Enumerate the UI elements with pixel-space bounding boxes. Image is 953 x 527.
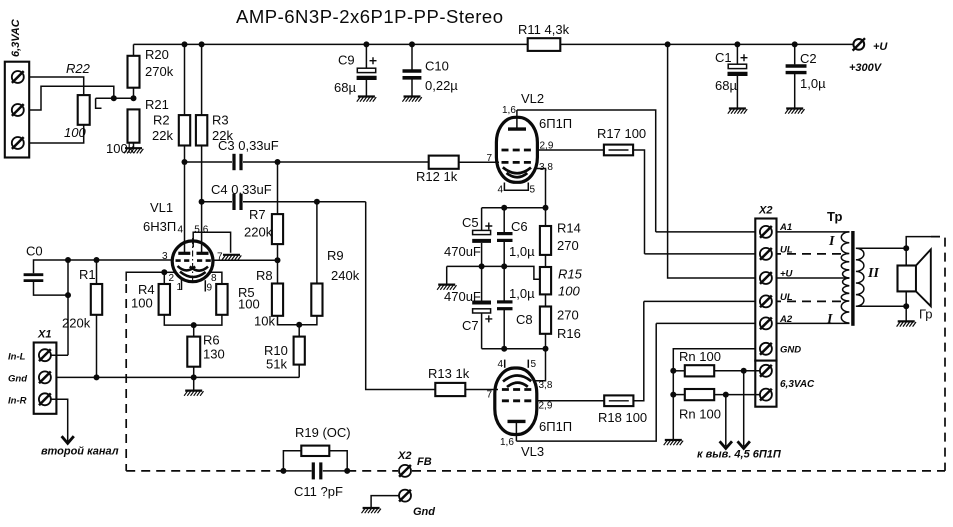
svg-text:C10: C10 [425, 59, 449, 74]
svg-text:I: I [828, 234, 835, 249]
svg-text:R12 1k: R12 1k [416, 169, 458, 184]
svg-text:7: 7 [487, 153, 493, 164]
svg-text:C0: C0 [26, 244, 43, 259]
svg-text:6П1П: 6П1П [539, 419, 572, 434]
node rail C1 [734, 41, 740, 47]
svg-text:1,0µ: 1,0µ [800, 76, 826, 91]
ground of cathode bank [437, 285, 456, 290]
wire ground bus X1 to R10 [51, 376, 299, 378]
wire screw2 to R20/R21 junction [29, 86, 114, 110]
screw X2 UL1 [760, 248, 772, 260]
resistor R8 [254, 260, 299, 328]
resistor R5 [194, 284, 260, 325]
wire feedback from cathode node [126, 272, 164, 281]
svg-text:7: 7 [217, 252, 223, 263]
node Rn lower left [670, 392, 676, 398]
svg-text:R9: R9 [327, 248, 344, 263]
wire GND row [673, 349, 760, 440]
wire cathode node line VL3 [482, 348, 546, 350]
VL3 heater pin 4 stub [504, 360, 506, 368]
wire feedback dashed horizontal to R19 [126, 470, 283, 472]
screw X2 A1 [760, 226, 772, 238]
svg-text:4: 4 [498, 185, 504, 196]
svg-text:C8: C8 [516, 312, 533, 327]
wire A2 row [656, 322, 849, 324]
node C5 middle [479, 263, 485, 269]
resistor R6 [187, 325, 224, 390]
svg-text:C9: C9 [338, 53, 355, 68]
node Rn upper left [670, 368, 676, 374]
svg-text:10k: 10k [254, 314, 275, 329]
resistor R13 [428, 366, 498, 396]
svg-text:GND: GND [780, 345, 801, 356]
svg-text:II: II [867, 266, 879, 281]
svg-text:68µ: 68µ [715, 78, 737, 93]
transformer Tp core [827, 209, 855, 326]
svg-text:5: 5 [194, 225, 200, 236]
svg-text:470uF: 470uF [444, 244, 481, 259]
svg-text:Rn 100: Rn 100 [679, 407, 721, 422]
terminal X2 FB [397, 450, 432, 477]
svg-text:VL3: VL3 [521, 444, 544, 459]
svg-text:1,6: 1,6 [502, 105, 516, 116]
heater feed arrow right [738, 371, 750, 449]
svg-text:0,22µ: 0,22µ [425, 78, 458, 93]
svg-text:R7: R7 [249, 207, 266, 222]
svg-text:270: 270 [557, 238, 579, 253]
wire In-R to second channel arrow [41, 399, 119, 457]
wire grid line to VL1 pin 3 [68, 259, 173, 261]
wire VL1 left cathode to R4 [164, 271, 177, 273]
svg-text:5: 5 [530, 185, 536, 196]
resistor R20 [128, 44, 174, 98]
svg-text:R8: R8 [256, 268, 273, 283]
ground under R6 [184, 391, 203, 396]
node C6 top [501, 205, 507, 211]
screw terminal 6,3VAC-2 [12, 104, 24, 116]
resistor R18 [598, 395, 647, 425]
svg-text:220k: 220k [62, 316, 91, 331]
node C6 middle [501, 263, 507, 269]
ground under C9 [357, 97, 376, 102]
node R22 wiper junction [111, 95, 117, 101]
resistor R9 [299, 202, 359, 325]
wire top rail right of R11 [560, 43, 853, 45]
svg-text:3: 3 [162, 251, 168, 262]
ground under C10 [402, 97, 421, 102]
node C3/R2 [182, 159, 188, 165]
resistor R10 [264, 325, 305, 378]
svg-text:4: 4 [178, 225, 184, 236]
screw X1 In-L [39, 349, 51, 361]
svg-text:51k: 51k [266, 357, 287, 372]
wire UL2 row [644, 300, 760, 302]
node rail C2 [792, 41, 798, 47]
wire A1 row [656, 231, 850, 233]
svg-text:In-L: In-L [8, 352, 26, 363]
node C3/R7 [275, 159, 281, 165]
svg-text:2: 2 [169, 273, 175, 284]
node C8 bottom [501, 346, 507, 352]
wire feedback dashed corner [931, 237, 945, 471]
capacitor C6 [497, 208, 535, 267]
resistor R7 [244, 162, 283, 260]
node rail R3 [199, 41, 205, 47]
resistor R19 (OC) [283, 425, 350, 471]
wire R18 to UL2 riser [633, 301, 643, 400]
terminal strip X2 lower box [755, 361, 815, 407]
node rail R2 [182, 41, 188, 47]
node R1 bottom [94, 374, 100, 380]
wire VL2 cathode 3,8 [535, 169, 546, 208]
svg-text:6: 6 [203, 225, 209, 236]
wire dashed to FB terminal [347, 470, 398, 472]
screw X2 +U [760, 272, 772, 284]
resistor Rn lower [673, 389, 760, 422]
node R19 right [344, 468, 350, 474]
svg-text:240k: 240k [331, 268, 360, 283]
svg-text:4: 4 [498, 359, 504, 370]
svg-text:100: 100 [558, 284, 580, 299]
resistor R14 [540, 208, 581, 267]
wire VL3 cathode 3,8 [535, 349, 546, 381]
node R4/R5/R6 [191, 322, 197, 328]
node rail C9 [363, 41, 369, 47]
wire In-L riser [67, 260, 69, 355]
svg-text:100: 100 [64, 125, 86, 140]
resistor R16 [540, 307, 581, 349]
svg-text:I: I [826, 312, 833, 327]
VL3 heater pin 5 stub [527, 360, 529, 368]
svg-text:R21: R21 [145, 97, 169, 112]
node C4/R9 [314, 199, 320, 205]
node C0 top [65, 257, 71, 263]
capacitor C11 [283, 462, 347, 499]
svg-text:+U: +U [780, 269, 794, 280]
svg-text:UL: UL [780, 245, 793, 256]
node speaker top [903, 245, 909, 251]
wire screw1 to R22 top [29, 77, 83, 95]
capacitor C7 [444, 266, 492, 348]
svg-text:C1: C1 [715, 50, 732, 65]
svg-text:C4 0,33uF: C4 0,33uF [211, 182, 272, 197]
wire secondary top to speaker [856, 247, 906, 249]
wire middle ground line [447, 266, 540, 279]
svg-text:R3: R3 [212, 113, 229, 128]
screw X2 GND [760, 343, 772, 355]
svg-text:FB: FB [417, 456, 432, 468]
svg-text:R6: R6 [203, 333, 220, 348]
svg-text:270k: 270k [145, 64, 174, 79]
svg-text:In-R: In-R [8, 396, 27, 407]
svg-text:A1: A1 [779, 222, 792, 233]
wire +U drop and row [668, 44, 850, 278]
svg-text:5: 5 [531, 359, 537, 370]
triode VL1 [143, 200, 223, 294]
svg-text:1,6: 1,6 [500, 437, 514, 448]
node R14 top [543, 205, 549, 211]
svg-text:6,3VAC: 6,3VAC [10, 18, 22, 57]
svg-text:100: 100 [131, 296, 153, 311]
svg-text:1,0µ: 1,0µ [509, 286, 535, 301]
svg-text:3,8: 3,8 [539, 380, 553, 391]
svg-text:100: 100 [238, 297, 260, 312]
wire UL1 dashed to transformer [772, 253, 846, 255]
svg-text:второй канал: второй канал [41, 446, 119, 458]
svg-text:1,0µ: 1,0µ [509, 244, 535, 259]
wire screw3 to R22 bottom [29, 125, 83, 143]
resistor R3 [196, 44, 234, 253]
wire dashed FB to right border [412, 470, 945, 472]
svg-text:470uF: 470uF [444, 289, 481, 304]
svg-text:к выв. 4,5 6П1П: к выв. 4,5 6П1П [697, 449, 782, 461]
node C0 bottom [65, 292, 71, 298]
wire secondary bottom to speaker [856, 305, 906, 307]
resistor Rn upper [673, 349, 760, 376]
svg-text:130: 130 [203, 347, 225, 362]
resistor R2 [152, 44, 190, 253]
svg-text:R1: R1 [79, 267, 96, 282]
node R8/R9/R10 [296, 322, 302, 328]
node R7/R8 [275, 257, 281, 263]
capacitor C5 [444, 208, 492, 267]
svg-text:Gnd: Gnd [413, 506, 435, 518]
svg-text:1: 1 [177, 282, 183, 293]
node rail C10 [409, 41, 415, 47]
terminal X2 Gnd [399, 490, 435, 518]
node R6/Gnd wire [191, 374, 197, 380]
screw terminal 6,3VAC-1 [12, 71, 24, 83]
pentode VL3 [487, 359, 573, 459]
svg-text:R14: R14 [557, 221, 581, 236]
svg-text:X1: X1 [37, 329, 51, 341]
resistor R1 [62, 260, 102, 377]
svg-text:UL: UL [780, 292, 793, 303]
wire R17 to UL1 riser [633, 150, 644, 254]
capacitor C1 [715, 44, 748, 107]
svg-text:6П1П: 6П1П [539, 116, 572, 131]
svg-text:C11 ?pF: C11 ?pF [294, 484, 343, 499]
svg-text:R19 (ОС): R19 (ОС) [295, 425, 351, 440]
svg-text:R20: R20 [145, 47, 169, 62]
ground under R21 [124, 148, 143, 153]
terminal +U +300V [849, 38, 888, 74]
screw X2 UL2 [760, 295, 772, 307]
ground under C1 [728, 109, 747, 114]
svg-text:6,3VAC: 6,3VAC [780, 379, 815, 390]
trimmer R15 [540, 267, 583, 307]
capacitor C8 [497, 266, 535, 348]
svg-text:R11 4,3k: R11 4,3k [518, 22, 570, 37]
svg-text:X2: X2 [758, 205, 772, 217]
speaker Гр [898, 248, 933, 321]
screw X2 6,3VAC-a [760, 365, 772, 377]
resistor R21 [106, 97, 169, 156]
ground of GND riser [664, 440, 683, 445]
ground under C2 [785, 109, 804, 114]
wire UL1 row [645, 253, 761, 255]
node Rn upper right [741, 368, 747, 374]
svg-text:C3 0,33uF: C3 0,33uF [218, 138, 279, 153]
heater feed arrow left [697, 395, 782, 461]
wire feedback dashed vertical [125, 284, 127, 471]
svg-text:6Н3П: 6Н3П [143, 219, 176, 234]
VL2 heater pins 4,5 bridge [504, 183, 528, 191]
svg-text:68µ: 68µ [334, 80, 356, 95]
svg-text:R15: R15 [558, 267, 583, 282]
capacitor C0 [24, 244, 68, 296]
svg-text:220k: 220k [244, 225, 273, 240]
terminal block X1 [8, 329, 56, 414]
node R16 bottom [543, 346, 549, 352]
svg-text:C6: C6 [511, 219, 528, 234]
svg-text:R22: R22 [66, 61, 91, 76]
svg-text:Gnd: Gnd [8, 374, 27, 385]
svg-text:+U: +U [873, 41, 888, 53]
svg-text:C5: C5 [462, 215, 479, 230]
node R20/R21 junction [131, 95, 137, 101]
svg-text:Гр: Гр [919, 307, 933, 322]
wire VL3 screen to R18 [537, 400, 604, 402]
pentode VL2 [487, 91, 573, 196]
resistor R4 [131, 272, 194, 325]
svg-text:7: 7 [487, 390, 493, 401]
wire feedback tap [906, 237, 931, 249]
svg-text:C7: C7 [462, 318, 479, 333]
ground of X2 Gnd [362, 508, 381, 513]
node R19 left [280, 468, 286, 474]
svg-text:X2: X2 [397, 450, 411, 462]
svg-text:R2: R2 [153, 113, 170, 128]
resistor R17 [597, 126, 646, 155]
svg-text:9: 9 [207, 283, 213, 294]
wire UL2 dashed to transformer [772, 300, 846, 302]
svg-text:VL2: VL2 [521, 91, 544, 106]
capacitor C2 [786, 44, 826, 107]
node rail +U drop [665, 41, 671, 47]
screw X1 In-R [39, 393, 51, 405]
node R1 top [94, 257, 100, 263]
svg-text:R16: R16 [557, 326, 581, 341]
wire VL1 pin7 to R7/R8 node [213, 259, 278, 261]
resistor R11 [518, 22, 570, 51]
potentiometer R22 [64, 61, 102, 140]
wire VL2 screen to R17 [537, 149, 604, 151]
chassis ground at VL1 pin7 [222, 255, 241, 260]
svg-text:R13 1k: R13 1k [428, 366, 470, 381]
wire top rail left of R11 [134, 43, 528, 45]
wire Gnd terminal to ground [371, 496, 399, 508]
transformer secondary winding [856, 248, 880, 306]
node C4/R3 [199, 199, 205, 205]
screw X2 A2 [760, 317, 772, 329]
svg-text:AMP-6N3P-2x6P1P-PP-Stereo: AMP-6N3P-2x6P1P-PP-Stereo [236, 6, 504, 27]
svg-text:R17 100: R17 100 [597, 126, 646, 141]
svg-text:Тр: Тр [827, 209, 842, 224]
screw X1 Gnd [39, 371, 51, 383]
transformer primary winding [826, 232, 849, 327]
wire C4 line to R13 [366, 202, 436, 390]
svg-text:C2: C2 [800, 51, 817, 66]
svg-text:A2: A2 [779, 314, 793, 325]
wire VL2 anode to A1 riser [517, 110, 656, 232]
ground under speaker [897, 321, 916, 326]
wire middle line to ground [446, 266, 448, 284]
capacitor C9 [334, 44, 377, 95]
svg-text:2,9: 2,9 [539, 401, 553, 412]
capacitor C10 [403, 44, 459, 95]
screw terminal 6,3VAC-3 [12, 137, 24, 149]
svg-text:VL1: VL1 [150, 200, 173, 215]
svg-text:22k: 22k [152, 128, 173, 143]
svg-text:R18 100: R18 100 [598, 410, 647, 425]
wire cathode node line VL2 [482, 207, 546, 209]
wire In-L [51, 354, 68, 356]
wire VL1 grids 5,6 to chassis [193, 232, 230, 253]
wire VL1 right cathode to R5 [209, 272, 222, 284]
terminal block 6,3VAC [5, 18, 29, 157]
screw X2 6,3VAC-b [760, 389, 772, 401]
node speaker bottom [903, 303, 909, 309]
wire VL3 anode to A2 riser [516, 323, 656, 441]
resistor R12 [416, 156, 499, 184]
svg-text:Rn 100: Rn 100 [679, 349, 721, 364]
svg-text:+300V: +300V [849, 62, 883, 74]
terminal strip X2 upper box [755, 205, 801, 361]
capacitor C4 [202, 182, 366, 210]
node Rn lower right [723, 392, 729, 398]
node cathode/R4/feedback [161, 269, 167, 275]
capacitor C3 [185, 138, 429, 170]
svg-text:270: 270 [557, 308, 579, 323]
